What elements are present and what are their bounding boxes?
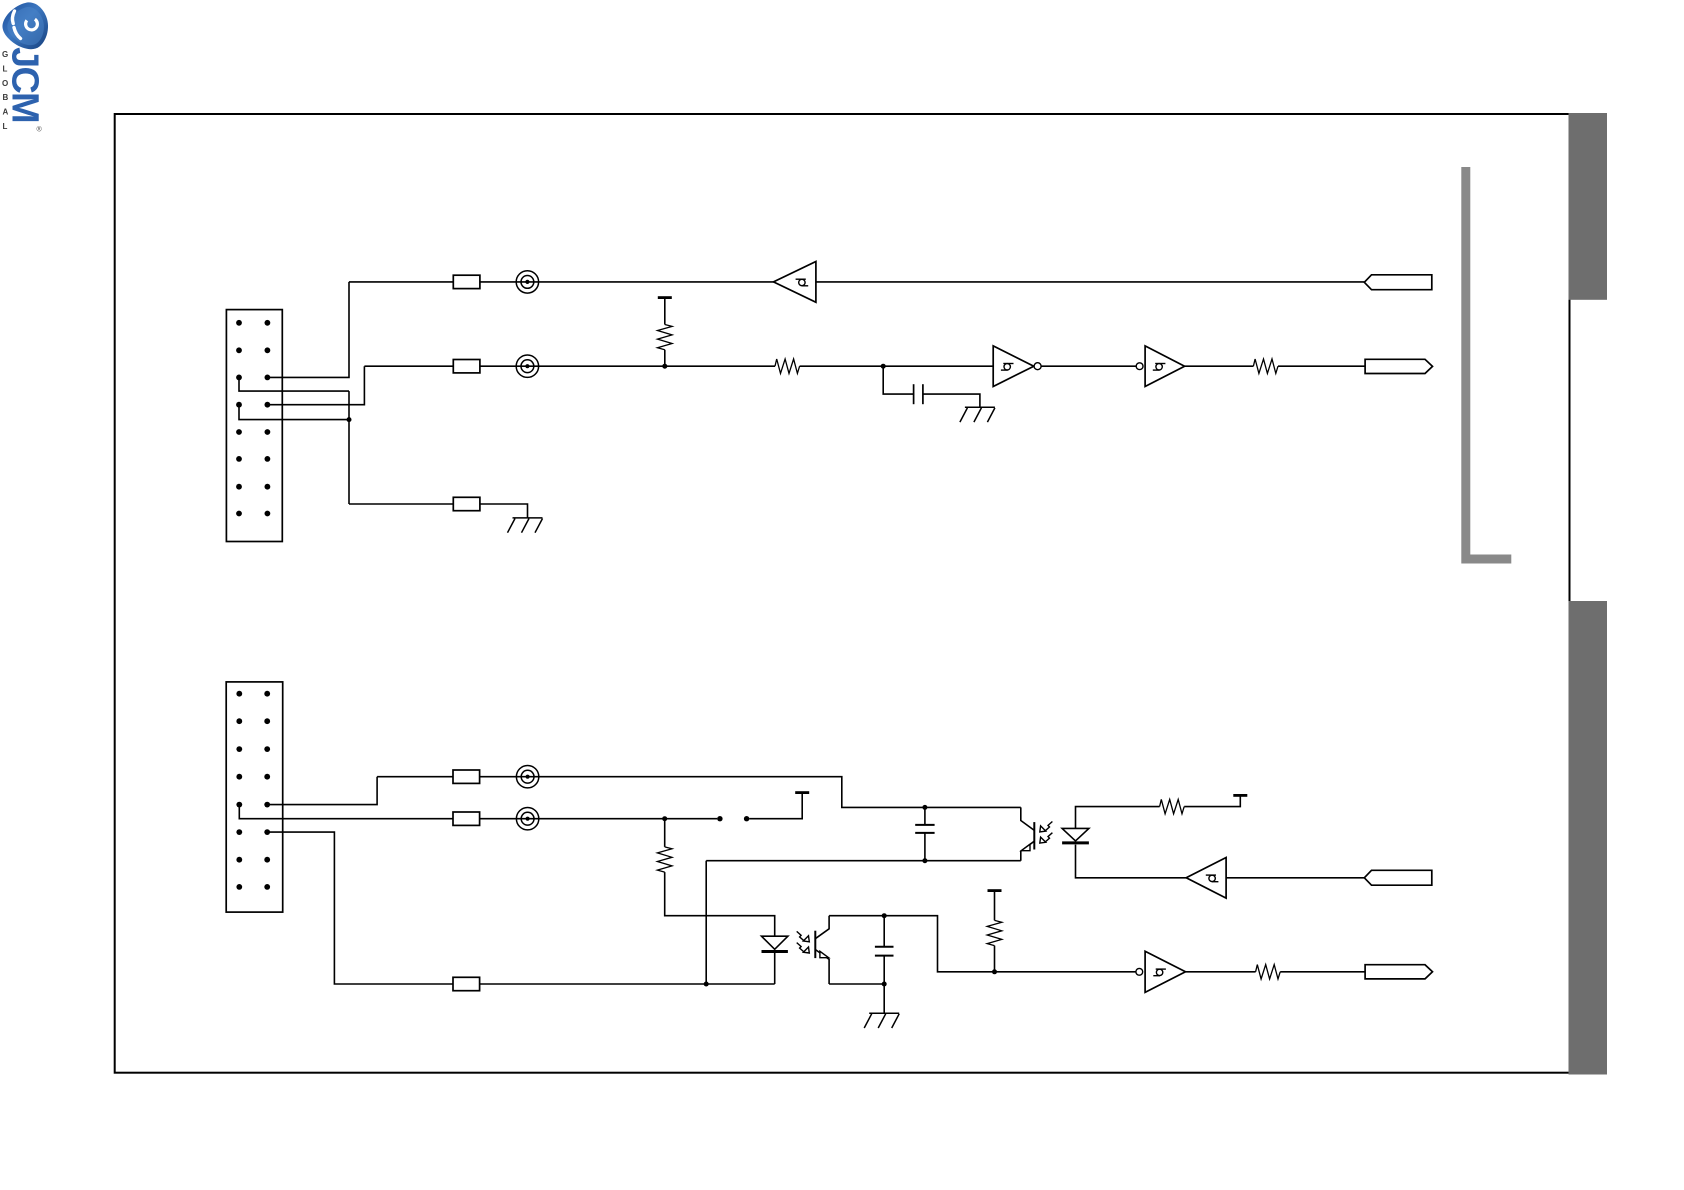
junction node collector rail <box>882 913 887 918</box>
power T-bar opto1 anode <box>1233 794 1247 796</box>
opto2 input LED <box>762 936 788 949</box>
wire opto1 LED cathode to buffer <box>1076 845 1187 878</box>
svg-text:B: B <box>3 93 9 102</box>
wire lineB b <box>480 818 718 820</box>
ferrite bead line2 <box>516 355 538 377</box>
wire cap2 stems <box>924 807 926 860</box>
logo ring <box>23 16 39 32</box>
capacitor C2 <box>915 825 934 833</box>
resistor R-lineB <box>453 812 480 825</box>
wire row3 left down <box>239 377 349 391</box>
power T-bar pullup <box>658 297 672 299</box>
wire opto2 LED cathode <box>774 953 776 984</box>
wire pullup2 stem <box>994 891 996 972</box>
wire pulldown stem <box>665 819 775 937</box>
gray sidebar bottom <box>1569 601 1608 1075</box>
wire to output tag <box>1280 971 1365 973</box>
junction node pullup/line2 <box>662 364 667 369</box>
wire line2 segment a <box>364 365 453 367</box>
resistor R-lineC <box>453 977 480 990</box>
power T-bar switch <box>795 792 809 794</box>
logo GLOBAL letters <box>2 50 9 131</box>
wire buffer3 input <box>1226 877 1364 879</box>
wire gnd stem opto2 <box>883 984 885 1013</box>
junction node lineC <box>704 982 709 987</box>
schmitt inverter U2 <box>993 346 1041 387</box>
output tag line2 <box>1365 359 1432 373</box>
wire row4 left to junction <box>239 405 349 420</box>
switch contact right <box>744 816 749 821</box>
series resistor zigzag line2 <box>775 359 800 373</box>
wire line2 segment f <box>1278 365 1365 367</box>
svg-text:G: G <box>2 50 8 59</box>
wire row5 left to lineB <box>239 805 453 819</box>
connector J2 <box>226 682 283 912</box>
svg-text:JCM: JCM <box>4 47 46 122</box>
logo swoosh <box>12 11 14 24</box>
wire row6 right to lineC <box>267 832 453 984</box>
junction node emitter rail <box>882 982 887 987</box>
output resistor zigzag bottom <box>1256 965 1281 979</box>
ferrite bead lineB <box>516 808 538 830</box>
gray L bracket <box>1461 167 1511 564</box>
opto1 phototransistor <box>1021 807 1035 860</box>
wire emitter rail to lineC drop <box>705 861 707 984</box>
svg-text:A: A <box>3 108 9 117</box>
ground symbol opto2 <box>864 1013 899 1028</box>
wire cap3 stems <box>883 916 885 984</box>
resistor R-line1 <box>453 275 480 288</box>
wire row4 right to line2 riser <box>267 366 364 405</box>
schmitt buffer U4 (left pointing) <box>1186 858 1226 899</box>
ground symbol cap branch <box>960 407 995 422</box>
wire inverter4 out <box>1186 971 1256 973</box>
buffer U1 (left pointing schmitt) <box>774 262 816 303</box>
junction node row4-left <box>347 417 352 422</box>
connector J2 pins <box>236 691 242 697</box>
svg-text:L: L <box>3 64 8 73</box>
ferrite bead lineA <box>516 766 538 788</box>
pullup2 T-bar <box>988 890 1002 892</box>
junction node pullup2 <box>992 969 997 974</box>
logo blob icon <box>2 2 48 49</box>
wire ground rail bottom <box>349 503 453 505</box>
connector J1 <box>226 310 282 542</box>
capacitor C3 <box>875 947 894 956</box>
junction node cap2 bottom <box>922 858 927 863</box>
switch contact left <box>717 816 722 821</box>
junction node cap2 top <box>922 805 927 810</box>
wire row5 right to lineA riser <box>267 777 377 805</box>
opto1 light arrow 1 <box>1040 822 1053 832</box>
resistor R-gndline <box>453 497 480 510</box>
wire ground rail bottom b <box>480 504 528 518</box>
wire line1 left segment <box>349 281 774 283</box>
wire capacitor branch <box>883 366 913 394</box>
svg-text:®: ® <box>37 126 43 134</box>
pulldown resistor zigzag <box>657 847 672 872</box>
schematic frame border <box>115 114 1570 1073</box>
series resistor zigzag output <box>1253 359 1278 373</box>
wire lineA b with step down <box>480 777 1021 808</box>
ground symbol bottom rail <box>508 518 543 533</box>
wire line2 segment d <box>1041 365 1136 367</box>
connector J1 pins <box>236 320 242 326</box>
output tag bottom <box>1365 965 1432 979</box>
pullup2 resistor zigzag <box>987 920 1002 945</box>
wire pullup stem <box>664 298 666 367</box>
anode series resistor zigzag <box>1160 799 1185 813</box>
wire row3 right to line1 riser <box>267 282 349 378</box>
opto1 LED <box>1062 828 1089 841</box>
input tag bottom <box>1364 870 1432 885</box>
ferrite bead line1 <box>516 271 538 293</box>
junction node lineB pulldown <box>662 816 667 821</box>
junction node cap branch <box>881 364 886 369</box>
pullup resistor zigzag <box>658 325 673 350</box>
wire opto1 LED anode rail <box>1076 807 1160 829</box>
wire opto2 collector rail <box>829 916 1136 972</box>
opto2 light arrow 1 <box>797 931 810 941</box>
schmitt inverter U5 <box>1136 951 1186 992</box>
wire capacitor to ground <box>923 394 980 407</box>
input tag line1 <box>1364 275 1432 290</box>
wire line2 segment e <box>1185 365 1254 367</box>
svg-text:O: O <box>2 79 8 88</box>
opto1 light arrow 2 <box>1040 833 1053 843</box>
wire line2 segment b <box>480 365 775 367</box>
opto2 phototransistor <box>815 916 829 984</box>
wire lineA a <box>377 776 453 778</box>
wire ground drop <box>348 391 350 504</box>
opto2 light arrow 2 <box>797 943 810 953</box>
resistor R-lineA <box>453 770 480 783</box>
gray sidebar top <box>1569 113 1608 300</box>
wire line2 segment c <box>800 365 994 367</box>
wire opto2 emitter rail <box>829 983 884 985</box>
schmitt buffer U3 (input bubble) <box>1136 346 1184 387</box>
capacitor C1 <box>914 384 923 404</box>
wire switch to T-bar <box>749 793 802 819</box>
wire opto1 emitter rail <box>706 860 1021 862</box>
resistor R-line2 <box>453 360 480 373</box>
wire line1 right segment <box>816 281 1364 283</box>
wire lineC b <box>480 983 775 985</box>
svg-text:L: L <box>3 122 8 131</box>
wire anode rail to T-bar <box>1184 795 1240 806</box>
